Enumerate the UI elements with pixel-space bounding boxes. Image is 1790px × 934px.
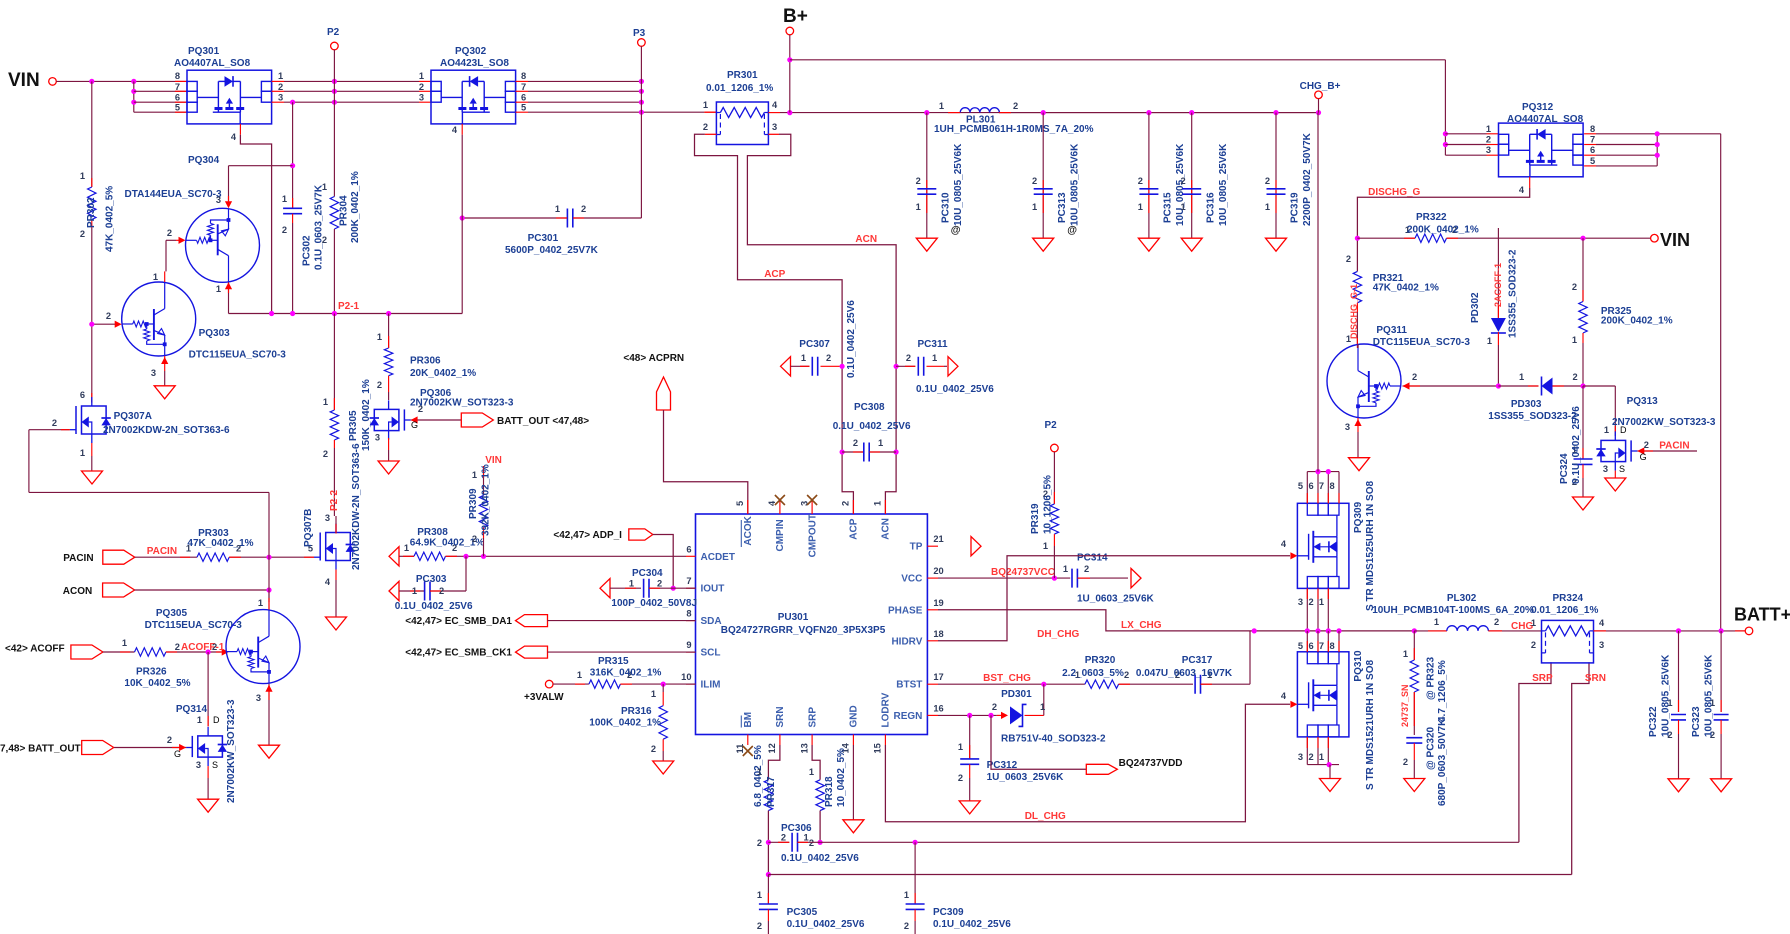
svg-text:2: 2 <box>1309 597 1314 607</box>
svg-text:ACDET: ACDET <box>701 552 735 563</box>
svg-text:1: 1 <box>801 353 806 363</box>
svg-text:10UH_PCMB104T-100MS_6A_20%: 10UH_PCMB104T-100MS_6A_20% <box>1372 605 1534 616</box>
svg-text:200K_0402_1%: 200K_0402_1% <box>1407 225 1479 236</box>
svg-text:1: 1 <box>878 438 883 448</box>
svg-text:2: 2 <box>1181 176 1186 186</box>
svg-text:2: 2 <box>1346 254 1351 264</box>
svg-text:1: 1 <box>80 171 85 181</box>
svg-text:DISCHG_G: DISCHG_G <box>1368 187 1420 198</box>
svg-text:1: 1 <box>939 101 944 111</box>
svg-text:PQ309: PQ309 <box>1353 501 1364 533</box>
svg-text:1: 1 <box>1604 425 1609 435</box>
svg-text:2: 2 <box>904 921 909 931</box>
svg-text:<42,47> EC_SMB_CK1: <42,47> EC_SMB_CK1 <box>405 648 512 659</box>
svg-text:100P_0402_50V8J: 100P_0402_50V8J <box>611 598 697 609</box>
svg-text:2: 2 <box>167 735 172 745</box>
svg-text:1U_0603_25V6K: 1U_0603_25V6K <box>987 772 1065 783</box>
svg-text:2N7002KW_SOT323-3: 2N7002KW_SOT323-3 <box>410 398 514 409</box>
svg-text:19: 19 <box>933 598 943 608</box>
svg-text:DL_CHG: DL_CHG <box>1025 811 1066 822</box>
svg-text:DTA144EUA_SC70-3: DTA144EUA_SC70-3 <box>125 189 223 200</box>
svg-text:2: 2 <box>906 353 911 363</box>
svg-text:@: @ <box>951 225 961 236</box>
svg-text:1: 1 <box>904 890 909 900</box>
svg-text:4: 4 <box>1519 185 1525 195</box>
svg-text:1: 1 <box>1487 336 1492 346</box>
svg-text:7: 7 <box>1590 135 1595 145</box>
svg-text:<42,47> ADP_I: <42,47> ADP_I <box>553 530 622 541</box>
svg-text:ACOK: ACOK <box>743 515 754 545</box>
svg-text:BATT_OUT <47,48>: BATT_OUT <47,48> <box>497 416 589 427</box>
svg-text:2: 2 <box>472 534 477 544</box>
svg-text:1: 1 <box>1138 202 1143 212</box>
svg-text:2: 2 <box>167 228 172 238</box>
svg-text:6: 6 <box>175 93 180 103</box>
svg-text:PC302: PC302 <box>302 235 313 266</box>
svg-text:SRN: SRN <box>1585 673 1606 684</box>
svg-text:@: @ <box>1067 225 1077 236</box>
svg-text:PR306: PR306 <box>410 356 441 367</box>
svg-text:200K_0402_1%: 200K_0402_1% <box>1601 316 1673 327</box>
svg-text:2: 2 <box>657 579 662 589</box>
svg-text:1: 1 <box>629 579 634 589</box>
svg-text:PD303: PD303 <box>1511 399 1542 410</box>
svg-text:3: 3 <box>256 693 261 703</box>
svg-text:P2: P2 <box>327 27 340 38</box>
svg-text:3: 3 <box>325 513 330 523</box>
svg-text:2: 2 <box>1494 617 1499 627</box>
svg-text:1: 1 <box>1032 202 1037 212</box>
svg-text:1: 1 <box>1043 541 1048 551</box>
svg-text:P3: P3 <box>633 28 646 39</box>
svg-text:3: 3 <box>1599 640 1604 650</box>
svg-text:2: 2 <box>80 229 85 239</box>
svg-text:1: 1 <box>80 448 85 458</box>
svg-text:6: 6 <box>686 544 691 554</box>
svg-text:2: 2 <box>853 438 858 448</box>
svg-text:PQ301: PQ301 <box>188 46 220 57</box>
svg-text:1: 1 <box>1531 618 1536 628</box>
svg-text:1: 1 <box>1486 124 1491 134</box>
svg-text:VCC: VCC <box>901 574 922 585</box>
svg-text:LX_CHG: LX_CHG <box>1121 620 1162 631</box>
svg-text:HIDRV: HIDRV <box>891 636 922 647</box>
svg-text:AO4423L_SO8: AO4423L_SO8 <box>440 58 509 69</box>
svg-text:3: 3 <box>196 760 201 770</box>
svg-text:DISCHG_G-1: DISCHG_G-1 <box>1349 284 1359 339</box>
svg-text:10U_0805_25V6K: 10U_0805_25V6K <box>1703 654 1714 737</box>
svg-text:4: 4 <box>452 125 458 135</box>
svg-text:10: 10 <box>681 672 691 682</box>
svg-text:CMPIN: CMPIN <box>775 519 786 551</box>
svg-text:DH_CHG: DH_CHG <box>1037 629 1079 640</box>
svg-text:1: 1 <box>555 204 560 214</box>
svg-text:2: 2 <box>1013 101 1018 111</box>
svg-text:VIN: VIN <box>1660 230 1690 250</box>
svg-text:PQ304: PQ304 <box>188 155 220 166</box>
svg-text:1: 1 <box>757 767 762 777</box>
svg-text:CMPOUT: CMPOUT <box>807 514 818 557</box>
svg-text:5: 5 <box>1590 156 1595 166</box>
svg-text:BQ24727RGRR_VQFN20_3P5X3P5: BQ24727RGRR_VQFN20_3P5X3P5 <box>721 625 886 636</box>
svg-text:S: S <box>1619 464 1625 474</box>
svg-text:2: 2 <box>916 176 921 186</box>
svg-text:2: 2 <box>1412 372 1417 382</box>
svg-text:6: 6 <box>521 93 526 103</box>
svg-text:PR320: PR320 <box>1085 655 1116 666</box>
svg-text:3: 3 <box>151 368 156 378</box>
svg-text:11: 11 <box>735 744 745 754</box>
svg-text:3: 3 <box>419 93 424 103</box>
svg-text:680P_0603_50V7K: 680P_0603_50V7K <box>1437 718 1448 806</box>
svg-text:1: 1 <box>404 543 409 553</box>
svg-text:<48> ACPRN: <48> ACPRN <box>623 353 684 364</box>
svg-text:PC304: PC304 <box>632 568 663 579</box>
svg-text:0.047U_0603_16V7K: 0.047U_0603_16V7K <box>1136 668 1233 679</box>
svg-text:PL302: PL302 <box>1447 593 1477 604</box>
svg-text:PR326: PR326 <box>136 667 167 678</box>
svg-text:24737_SN: 24737_SN <box>1400 684 1410 727</box>
svg-text:2: 2 <box>323 449 328 459</box>
svg-text:1SS355_SOD323-2: 1SS355_SOD323-2 <box>1508 249 1519 338</box>
svg-text:GND: GND <box>849 705 860 727</box>
svg-text:20K_0402_1%: 20K_0402_1% <box>410 368 476 379</box>
svg-text:BST_CHG: BST_CHG <box>983 673 1031 684</box>
svg-text:5: 5 <box>1298 641 1303 651</box>
svg-text:DTC115EUA_SC70-3: DTC115EUA_SC70-3 <box>145 620 243 631</box>
svg-text:1: 1 <box>258 598 263 608</box>
svg-text:2: 2 <box>377 380 382 390</box>
svg-text:1: 1 <box>1319 752 1324 762</box>
svg-text:4: 4 <box>231 132 237 142</box>
svg-text:2: 2 <box>992 702 997 712</box>
svg-text:3: 3 <box>216 195 221 205</box>
svg-text:PACIN: PACIN <box>1659 441 1689 452</box>
svg-text:IOUT: IOUT <box>701 584 725 595</box>
svg-text:5: 5 <box>735 501 745 506</box>
svg-text:P2: P2 <box>1045 420 1058 431</box>
svg-text:1: 1 <box>377 332 382 342</box>
svg-text:1: 1 <box>703 100 708 110</box>
svg-text:7: 7 <box>1319 481 1324 491</box>
svg-text:2: 2 <box>175 642 180 652</box>
svg-text:2: 2 <box>581 204 586 214</box>
svg-text:PC317: PC317 <box>1182 655 1213 666</box>
svg-text:9: 9 <box>686 640 691 650</box>
svg-text:1: 1 <box>958 742 963 752</box>
svg-text:1: 1 <box>412 586 417 596</box>
svg-text:0.1U_0402_25V6: 0.1U_0402_25V6 <box>916 384 994 395</box>
svg-text:18: 18 <box>933 629 943 639</box>
svg-text:7: 7 <box>175 82 180 92</box>
svg-text:2: 2 <box>1138 176 1143 186</box>
svg-text:316K_0402_1%: 316K_0402_1% <box>590 668 662 679</box>
svg-text:150K_0402_1%: 150K_0402_1% <box>361 379 372 451</box>
svg-text:1: 1 <box>153 272 158 282</box>
svg-text:10U_0805_25V6K: 10U_0805_25V6K <box>1661 654 1672 737</box>
svg-text:7: 7 <box>521 82 526 92</box>
svg-text:AO4407AL_SO8: AO4407AL_SO8 <box>1507 114 1584 125</box>
svg-text:PQ305: PQ305 <box>156 608 188 619</box>
svg-text:PACIN: PACIN <box>63 553 93 564</box>
svg-text:6: 6 <box>80 390 85 400</box>
svg-text:BM: BM <box>743 712 754 728</box>
svg-text:8: 8 <box>1590 124 1595 134</box>
svg-text:3: 3 <box>772 122 777 132</box>
svg-text:PC303: PC303 <box>416 574 447 585</box>
svg-text:1: 1 <box>323 397 328 407</box>
svg-text:G: G <box>1640 452 1647 462</box>
svg-text:PR315: PR315 <box>598 656 629 667</box>
svg-text:AO4407AL_SO8: AO4407AL_SO8 <box>174 58 251 69</box>
svg-text:DTC115EUA_SC70-3: DTC115EUA_SC70-3 <box>1373 337 1471 348</box>
svg-text:2200P_0402_50V7K: 2200P_0402_50V7K <box>1302 132 1313 226</box>
svg-text:47K_0402_1%: 47K_0402_1% <box>1373 283 1439 294</box>
svg-text:0.1U_0402_25V6: 0.1U_0402_25V6 <box>1571 406 1582 484</box>
svg-text:0.01_1206_1%: 0.01_1206_1% <box>1531 605 1598 616</box>
svg-text:PR324: PR324 <box>1553 593 1584 604</box>
svg-text:PR302: PR302 <box>86 197 97 228</box>
svg-text:ACP: ACP <box>764 269 785 280</box>
svg-text:2: 2 <box>1486 135 1491 145</box>
svg-text:2.2_0603_5%: 2.2_0603_5% <box>1062 668 1124 679</box>
svg-text:2: 2 <box>651 744 656 754</box>
svg-text:3: 3 <box>375 433 380 443</box>
svg-text:1: 1 <box>916 202 921 212</box>
svg-text:PR322: PR322 <box>1416 212 1447 223</box>
svg-text:RB751V-40_SOD323-2: RB751V-40_SOD323-2 <box>1001 734 1106 745</box>
svg-text:PC301: PC301 <box>528 233 559 244</box>
svg-text:4: 4 <box>1281 539 1287 549</box>
svg-text:100K_0402_1%: 100K_0402_1% <box>589 718 661 729</box>
svg-text:47K_0402_5%: 47K_0402_5% <box>105 186 116 252</box>
svg-text:SRP: SRP <box>1532 673 1553 684</box>
svg-text:1: 1 <box>1519 372 1524 382</box>
svg-text:1: 1 <box>1572 335 1577 345</box>
svg-text:1: 1 <box>1040 702 1045 712</box>
svg-text:PR301: PR301 <box>727 70 758 81</box>
svg-text:PR318: PR318 <box>824 776 835 807</box>
svg-text:2: 2 <box>419 82 424 92</box>
svg-text:7: 7 <box>1319 641 1324 651</box>
svg-text:PC313: PC313 <box>1057 192 1068 223</box>
svg-text:SCL: SCL <box>701 648 721 659</box>
svg-text:2: 2 <box>1124 670 1129 680</box>
svg-text:1: 1 <box>577 670 582 680</box>
svg-text:LODRV: LODRV <box>881 692 892 727</box>
svg-text:0.1U_0402_25V6: 0.1U_0402_25V6 <box>787 919 865 930</box>
svg-text:BQ24737VDD: BQ24737VDD <box>1119 758 1183 769</box>
svg-text:PQ312: PQ312 <box>1522 102 1554 113</box>
svg-text:2: 2 <box>1309 752 1314 762</box>
svg-text:16: 16 <box>933 703 943 713</box>
svg-text:BQ24737VCC: BQ24737VCC <box>991 567 1055 578</box>
svg-text:8: 8 <box>686 609 691 619</box>
svg-text:ACON: ACON <box>63 586 92 597</box>
svg-text:2: 2 <box>1531 640 1536 650</box>
svg-text:2: 2 <box>1403 757 1408 767</box>
svg-text:1: 1 <box>1181 202 1186 212</box>
svg-text:PQ307A: PQ307A <box>114 411 152 422</box>
svg-text:1: 1 <box>932 353 937 363</box>
svg-text:ACOFF-1: ACOFF-1 <box>181 642 225 653</box>
svg-text:G: G <box>411 420 418 430</box>
svg-text:PU301: PU301 <box>778 612 809 623</box>
svg-text:8: 8 <box>1330 641 1335 651</box>
svg-text:SRP: SRP <box>807 707 818 728</box>
svg-text:PC316: PC316 <box>1205 192 1216 223</box>
svg-text:2: 2 <box>212 642 217 652</box>
svg-text:5600P_0402_25V7K: 5600P_0402_25V7K <box>505 245 599 256</box>
svg-text:0.1U_0402_25V6: 0.1U_0402_25V6 <box>395 601 473 612</box>
svg-text:10_1206_5%: 10_1206_5% <box>1043 475 1054 534</box>
svg-text:PC309: PC309 <box>933 907 964 918</box>
svg-text:PQ307B: PQ307B <box>303 509 314 547</box>
svg-text:CHG_B+: CHG_B+ <box>1300 81 1341 92</box>
svg-text:ACN: ACN <box>855 234 877 245</box>
svg-text:SDA: SDA <box>701 616 722 627</box>
svg-text:4: 4 <box>1281 691 1287 701</box>
svg-text:15: 15 <box>873 743 883 753</box>
svg-text:PQ310: PQ310 <box>1353 650 1364 682</box>
svg-text:8: 8 <box>521 71 526 81</box>
svg-text:12: 12 <box>767 743 777 753</box>
svg-text:0.1U_0402_25V6: 0.1U_0402_25V6 <box>933 919 1011 930</box>
svg-text:6: 6 <box>1309 641 1314 651</box>
svg-text:S TR MDS1525URH 1N SO8: S TR MDS1525URH 1N SO8 <box>1365 481 1376 611</box>
svg-text:1: 1 <box>1265 202 1270 212</box>
svg-text:PC308: PC308 <box>854 402 885 413</box>
svg-text:8: 8 <box>1330 481 1335 491</box>
svg-text:4: 4 <box>1599 618 1605 628</box>
svg-text:PC311: PC311 <box>918 339 948 350</box>
svg-text:2: 2 <box>278 82 283 92</box>
svg-text:2: 2 <box>958 773 963 783</box>
svg-text:3: 3 <box>1298 752 1303 762</box>
svg-text:0.01_1206_1%: 0.01_1206_1% <box>706 83 773 94</box>
svg-text:2: 2 <box>439 586 444 596</box>
svg-text:3: 3 <box>1298 597 1303 607</box>
svg-text:PQ314: PQ314 <box>176 704 208 715</box>
svg-text:3: 3 <box>278 93 283 103</box>
svg-text:1: 1 <box>278 71 283 81</box>
svg-text:6: 6 <box>1590 145 1595 155</box>
svg-text:1: 1 <box>282 194 287 204</box>
svg-text:10K_0402_5%: 10K_0402_5% <box>124 678 190 689</box>
svg-text:2: 2 <box>757 838 762 848</box>
svg-text:PC319: PC319 <box>1290 192 1301 223</box>
svg-text:PC305: PC305 <box>787 907 818 918</box>
svg-text:4.7_1206_5%: 4.7_1206_5% <box>1437 660 1448 722</box>
svg-text:2: 2 <box>1032 176 1037 186</box>
svg-text:2: 2 <box>106 311 111 321</box>
svg-text:8: 8 <box>175 71 180 81</box>
svg-text:1: 1 <box>197 715 202 725</box>
svg-text:2: 2 <box>809 838 814 848</box>
svg-text:20: 20 <box>933 566 943 576</box>
svg-text:PR308: PR308 <box>417 527 448 538</box>
svg-text:2N7002KW_SOT323-3: 2N7002KW_SOT323-3 <box>1612 417 1716 428</box>
svg-text:PR309: PR309 <box>468 488 479 519</box>
svg-text:PQ302: PQ302 <box>455 46 487 57</box>
svg-text:1: 1 <box>1434 617 1439 627</box>
svg-text:1: 1 <box>651 689 656 699</box>
svg-text:7,48> BATT_OUT: 7,48> BATT_OUT <box>0 744 81 755</box>
svg-text:0.1U_0603_25V7K: 0.1U_0603_25V7K <box>314 184 325 270</box>
svg-text:S TR MDS1521URH 1N SO8: S TR MDS1521URH 1N SO8 <box>1365 660 1376 790</box>
svg-text:1: 1 <box>873 501 883 506</box>
svg-text:1: 1 <box>809 767 814 777</box>
svg-text:PD301: PD301 <box>1001 689 1032 700</box>
svg-text:<42,47> EC_SMB_DA1: <42,47> EC_SMB_DA1 <box>405 616 512 627</box>
svg-text:2: 2 <box>1265 176 1270 186</box>
svg-text:PC306: PC306 <box>781 823 812 834</box>
svg-text:1U_0603_25V6K: 1U_0603_25V6K <box>1077 594 1155 605</box>
svg-text:2: 2 <box>757 921 762 931</box>
svg-text:1SS355_SOD323-2: 1SS355_SOD323-2 <box>1488 411 1577 422</box>
svg-text:2: 2 <box>418 404 423 414</box>
svg-text:7: 7 <box>686 576 691 586</box>
svg-text:PR317: PR317 <box>766 776 777 807</box>
svg-text:1: 1 <box>1319 597 1324 607</box>
svg-text:200K_0402_1%: 200K_0402_1% <box>350 171 361 243</box>
svg-text:PR319: PR319 <box>1030 503 1041 534</box>
svg-text:PC307: PC307 <box>799 339 830 350</box>
svg-text:P2-2: P2-2 <box>329 489 340 511</box>
svg-text:VIN: VIN <box>8 70 40 91</box>
svg-text:4: 4 <box>772 100 778 110</box>
svg-text:SRN: SRN <box>775 706 786 727</box>
svg-text:10U_0805_25V6K: 10U_0805_25V6K <box>1069 143 1080 226</box>
svg-text:4: 4 <box>325 577 331 587</box>
svg-text:13: 13 <box>799 743 809 753</box>
svg-text:1: 1 <box>1063 564 1068 574</box>
svg-text:17: 17 <box>933 672 943 682</box>
svg-text:0.1U_0402_25V6: 0.1U_0402_25V6 <box>833 421 911 432</box>
svg-text:PHASE: PHASE <box>888 605 923 616</box>
svg-text:392K_0402_1%: 392K_0402_1% <box>481 464 492 536</box>
svg-text:5: 5 <box>521 103 526 113</box>
svg-text:PACIN: PACIN <box>147 546 177 557</box>
svg-text:ACP: ACP <box>849 518 860 539</box>
svg-text:1: 1 <box>216 284 221 294</box>
svg-text:PC310: PC310 <box>941 192 952 223</box>
svg-text:6: 6 <box>1309 481 1314 491</box>
svg-text:1: 1 <box>804 833 809 843</box>
svg-text:2: 2 <box>1084 564 1089 574</box>
svg-text:2: 2 <box>1573 372 1578 382</box>
svg-text:S: S <box>212 760 218 770</box>
svg-text:2: 2 <box>781 833 786 843</box>
svg-text:PC314: PC314 <box>1077 553 1108 564</box>
svg-text:BTST: BTST <box>896 680 922 691</box>
svg-text:PD302: PD302 <box>1470 292 1481 323</box>
svg-text:10U_0805_25V6K: 10U_0805_25V6K <box>1218 143 1229 226</box>
svg-text:1: 1 <box>757 890 762 900</box>
svg-text:2: 2 <box>703 122 708 132</box>
svg-text:1: 1 <box>419 71 424 81</box>
svg-text:<42> ACOFF: <42> ACOFF <box>5 644 65 655</box>
svg-text:DTC115EUA_SC70-3: DTC115EUA_SC70-3 <box>189 350 287 361</box>
svg-text:PR316: PR316 <box>621 706 652 717</box>
svg-text:1: 1 <box>472 470 477 480</box>
svg-text:10U_0805_25V6K: 10U_0805_25V6K <box>953 143 964 226</box>
svg-text:PC324: PC324 <box>1559 453 1570 484</box>
svg-text:1: 1 <box>1403 649 1408 659</box>
svg-text:G: G <box>174 749 181 759</box>
svg-text:21: 21 <box>933 534 943 544</box>
svg-text:1: 1 <box>122 638 127 648</box>
